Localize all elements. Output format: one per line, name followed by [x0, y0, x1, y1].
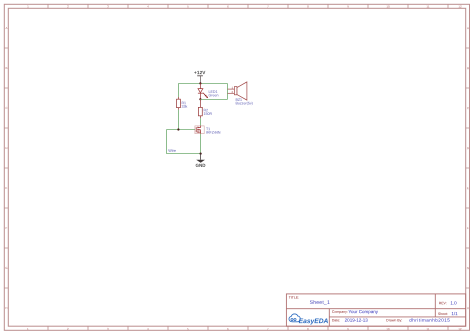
svg-text:F: F	[5, 226, 7, 230]
svg-text:+12V: +12V	[194, 70, 206, 75]
EasyEDA logo	[289, 314, 329, 325]
svg-text:2019-12-13: 2019-12-13	[345, 318, 369, 323]
svg-text:Green: Green	[208, 93, 218, 97]
svg-text:A: A	[5, 26, 7, 30]
buzzer BZ1 pin 2	[228, 90, 235, 94]
junction gate / R1	[177, 128, 179, 130]
wire +12V rail (node +12V)	[178, 83, 227, 85]
wire R1 pin 2 to gate node	[177, 110, 179, 130]
svg-text:Company:: Company:	[332, 310, 348, 314]
wire T1 source to ground node	[200, 134, 202, 154]
svg-text:TITLE:: TITLE:	[289, 296, 300, 300]
svg-text:Wire: Wire	[168, 149, 176, 153]
transistor T1 (N-MOSFET)	[195, 126, 204, 134]
resistor R2	[198, 99, 202, 118]
svg-text:GND: GND	[196, 163, 207, 168]
svg-text:H: H	[5, 306, 7, 310]
svg-text:10: 10	[386, 5, 390, 9]
svg-text:Your Company: Your Company	[348, 309, 378, 314]
svg-text:EasyEDA: EasyEDA	[299, 318, 329, 325]
svg-text:B: B	[5, 66, 7, 70]
svg-text:F: F	[467, 226, 469, 230]
svg-text:Buzzer(5v): Buzzer(5v)	[235, 101, 252, 105]
wire second rail to buzzer	[200, 98, 227, 100]
svg-text:12: 12	[458, 327, 462, 331]
junction +12V rail / LED anode	[199, 82, 201, 84]
svg-text:33k: 33k	[181, 105, 187, 109]
svg-text:12: 12	[458, 5, 462, 9]
resistor R1	[177, 97, 181, 110]
svg-text:1/1: 1/1	[451, 311, 458, 316]
svg-text:1.0: 1.0	[450, 300, 457, 305]
svg-text:Drawn By:: Drawn By:	[386, 318, 402, 322]
svg-text:dhritimanhb2015: dhritimanhb2015	[409, 318, 450, 323]
wire rail to R1 pin 1	[177, 84, 179, 98]
svg-text:E: E	[5, 186, 7, 190]
wire loop bottom	[167, 153, 201, 155]
svg-text:Date:: Date:	[332, 318, 340, 322]
svg-text:A: A	[467, 26, 469, 30]
title block text	[289, 296, 458, 323]
svg-text:Sheet_1: Sheet_1	[310, 300, 330, 306]
svg-text:11: 11	[426, 327, 429, 331]
junction ground node	[200, 153, 202, 155]
power flag +12V	[194, 70, 206, 83]
wire buzzer branch vertical	[227, 84, 229, 100]
svg-text:E: E	[467, 186, 469, 190]
svg-text:B: B	[467, 66, 469, 70]
svg-text:11: 11	[426, 5, 429, 9]
svg-text:150R: 150R	[203, 112, 212, 116]
buzzer BZ1 pin 1	[228, 86, 235, 90]
junction LED cathode / R2 / buzzer return	[199, 98, 201, 100]
title block frame	[286, 294, 465, 326]
ground GND	[196, 154, 207, 168]
svg-text:REV:: REV:	[439, 301, 447, 305]
buzzer BZ1 body	[234, 82, 247, 100]
LED LED1	[198, 84, 208, 100]
wire gate	[167, 129, 196, 131]
svg-text:H: H	[467, 306, 469, 310]
wire R2 to T1 drain	[199, 118, 201, 126]
svg-text:IRFZ44N: IRFZ44N	[206, 131, 221, 135]
wire loop left side	[166, 130, 168, 154]
svg-text:Sheet:: Sheet:	[438, 312, 448, 316]
svg-text:10: 10	[386, 327, 390, 331]
